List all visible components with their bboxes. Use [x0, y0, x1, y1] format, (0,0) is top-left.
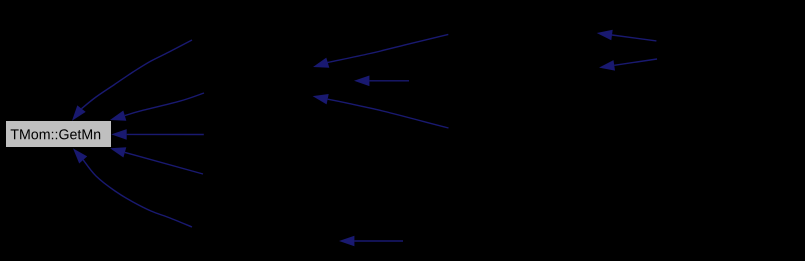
node TMom::GetMn (current node, grey) [6, 121, 112, 148]
edge col3a -> caller (upper-middle) [326, 34, 448, 62]
edge caller2 -> TMom::GetMn [125, 93, 204, 116]
edge TObject callers -> TMom::GetMn (top curve) [82, 40, 193, 109]
edge caller5 -> TMom::GetMn (bottom curve) [83, 160, 192, 227]
edge col3b -> caller (middle horizontal) [369, 80, 409, 82]
edge caller4 -> TMom::GetMn [125, 152, 203, 174]
edge caller3 -> TMom::GetMn (horizontal) [127, 133, 204, 135]
edge col3c -> caller (lower-middle) [328, 99, 449, 128]
edge rightmost -> col3 bottom [614, 59, 657, 65]
edge rightmost -> col3 top [612, 35, 656, 41]
edge bottom -> caller (bottom horizontal) [354, 240, 403, 242]
